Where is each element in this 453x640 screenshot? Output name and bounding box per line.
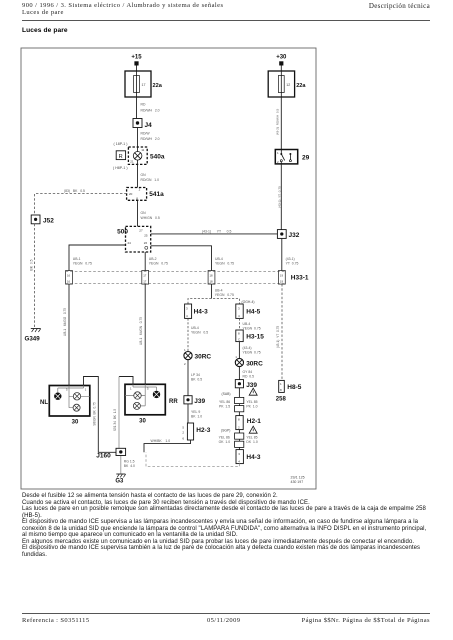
svg-text:YT 0.75: YT 0.75: [286, 262, 299, 266]
svg-text:YEGN 0.75: YEGN 0.75: [215, 293, 234, 297]
connector H4-3 lower: [236, 450, 243, 464]
H33-1 pin box 2: [142, 271, 149, 285]
svg-text:(43-1): (43-1): [286, 257, 295, 261]
connector H2-1: [236, 416, 243, 430]
warning triangle upper: [249, 388, 257, 395]
svg-text:3: 3: [238, 452, 240, 456]
svg-text:OK 1.0: OK 1.0: [219, 440, 231, 444]
connector J39 left: [184, 396, 192, 404]
svg-text:C: C: [238, 337, 241, 341]
svg-text:H4-5: H4-5: [246, 309, 260, 316]
svg-text:UB-1 64/GN 0.75: UB-1 64/GN 0.75: [139, 317, 143, 345]
svg-text:RR: RR: [169, 399, 178, 405]
svg-text:GY 84: GY 84: [243, 370, 253, 374]
inline connector pair lower: [235, 433, 244, 447]
inline connector pair upper: [235, 397, 244, 411]
footer rule: [22, 612, 430, 615]
connector H4-5: [236, 304, 243, 318]
svg-text:J160: J160: [96, 452, 111, 459]
connector H2-3: [182, 423, 193, 440]
svg-text:YEGN 0.75: YEGN 0.75: [243, 326, 261, 330]
header line 2: [22, 9, 64, 16]
ground drop wire through J160: [119, 377, 121, 474]
dashed trailer wire H4-3 to J160 node: [146, 452, 239, 466]
svg-text:2: 2: [182, 431, 184, 435]
svg-text:RD/W: RD/W: [141, 132, 151, 136]
svg-text:H4-3: H4-3: [194, 309, 208, 316]
svg-text:RD/WH 2.0: RD/WH 2.0: [141, 137, 160, 141]
svg-text:R: R: [119, 154, 123, 160]
500 pin 26 circle mark: [145, 246, 148, 249]
splice 30RC right: [235, 355, 243, 367]
svg-text:4: 4: [186, 314, 188, 318]
svg-text:4: 4: [238, 459, 240, 463]
wire J4 to 540a: [137, 128, 139, 148]
svg-text:( H8P-1 ): ( H8P-1 ): [113, 166, 128, 170]
svg-text:UB-4: UB-4: [215, 289, 223, 293]
svg-text:30: 30: [72, 420, 79, 426]
wire switch 29 to J32: [280, 164, 282, 230]
connector J4: [133, 119, 142, 128]
connector H3-15: [236, 330, 243, 342]
svg-text:2: 2: [238, 425, 240, 429]
svg-text:1: 1: [280, 382, 282, 386]
svg-text:RD/GN 1.0: RD/GN 1.0: [141, 178, 160, 182]
svg-text:UB-2: UB-2: [149, 257, 157, 261]
connector J160: [116, 448, 126, 455]
svg-text:8: 8: [238, 418, 240, 422]
H33-1 pin box 3: [208, 271, 215, 285]
wire +15 to fuse 17: [136, 66, 138, 72]
NL ground wire up over to J160: [84, 377, 116, 453]
wire 500 pin24 left to lamp NL feed: [69, 245, 126, 271]
connector J32: [277, 230, 286, 239]
svg-text:BK 1.0: BK 1.0: [191, 414, 202, 418]
svg-text:H8-5: H8-5: [287, 384, 301, 391]
svg-text:S8/GN BK 0.75: S8/GN BK 0.75: [93, 402, 97, 426]
svg-text:J4: J4: [145, 122, 153, 129]
svg-text:18: 18: [210, 280, 214, 284]
svg-text:19: 19: [280, 274, 284, 278]
svg-text:1: 1: [235, 355, 237, 359]
wire H4-5 to H3-15: [238, 318, 240, 330]
RR brake lamp filled: [153, 391, 160, 398]
page title: [22, 27, 68, 34]
svg-text:BK 0.5: BK 0.5: [29, 259, 33, 270]
svg-text:2: 2: [184, 362, 186, 366]
svg-text:30: 30: [139, 418, 146, 424]
svg-text:541a: 541a: [149, 191, 164, 198]
H33-1 pin box 1: [66, 271, 73, 285]
svg-text:(SAB): (SAB): [222, 392, 231, 396]
svg-text:21: 21: [130, 159, 134, 163]
svg-text:430 197: 430 197: [291, 480, 304, 484]
svg-text:5: 5: [182, 425, 184, 429]
wire to inline connector lower: [238, 430, 240, 433]
svg-text:RD: RD: [141, 103, 146, 107]
footer center: [207, 617, 240, 624]
svg-text:3: 3: [186, 306, 188, 310]
wire H33-1 to lamp RR: [144, 284, 146, 384]
H33-1 pin box 4: [279, 271, 286, 285]
diagram frame: [21, 48, 316, 489]
svg-text:NL: NL: [40, 400, 48, 406]
wire J39 to H2-3: [187, 404, 189, 423]
brake light switch 29: [275, 150, 297, 164]
svg-text:UB-1 64/GG 0.75: UB-1 64/GG 0.75: [63, 308, 67, 336]
svg-text:29: 29: [302, 154, 310, 161]
wire H4-3 to 30RC left: [187, 318, 189, 351]
svg-text:20: 20: [129, 192, 133, 196]
dashed wire J52 to G349: [34, 224, 36, 327]
svg-text:YEL 85: YEL 85: [246, 435, 257, 439]
svg-text:258: 258: [276, 396, 287, 402]
svg-text:DK 1.0: DK 1.0: [246, 440, 257, 444]
svg-text:G349: G349: [25, 336, 41, 343]
header right: [369, 2, 430, 10]
svg-text:30RC: 30RC: [195, 354, 212, 361]
svg-text:H33-1: H33-1: [291, 275, 309, 282]
svg-text:YEL 85: YEL 85: [246, 400, 257, 404]
svg-text:12: 12: [286, 83, 290, 87]
svg-text:YEL 86: YEL 86: [219, 400, 230, 404]
svg-text:RD/WH 2.0: RD/WH 2.0: [141, 109, 160, 113]
svg-text:GN: GN: [141, 173, 147, 177]
lamp unit NL box: [49, 386, 90, 417]
svg-text:S51 34 BK 1.5: S51 34 BK 1.5: [113, 409, 117, 432]
svg-text:( 18P-1 ): ( 18P-1 ): [114, 142, 128, 146]
wire J32 to bulkhead connector: [281, 238, 283, 271]
relay marker box R: [116, 151, 125, 160]
svg-text:WH/BK 1.0: WH/BK 1.0: [151, 439, 171, 443]
wire 541a to 500: [137, 200, 139, 226]
fuse 12 box 22a: [268, 71, 294, 97]
svg-text:8: 8: [238, 332, 240, 336]
svg-text:11: 11: [141, 148, 144, 152]
svg-text:(43-2) RD/WH 0.5: (43-2) RD/WH 0.5: [276, 108, 280, 135]
wire 500 right to high level stop lamp: [151, 246, 212, 271]
wire 30RC to J39 left: [187, 360, 189, 396]
svg-text:540a: 540a: [150, 153, 165, 160]
bulkhead connector H33-1 dashed band: [66, 271, 286, 283]
connector H4-3 upper: [185, 304, 192, 318]
svg-text:500: 500: [117, 229, 128, 236]
svg-text:RD 0.5: RD 0.5: [243, 375, 255, 379]
wire fuse 12 to switch 29: [280, 97, 282, 150]
svg-text:2: 2: [139, 188, 141, 192]
RR lamp crossed 1: [134, 392, 141, 399]
svg-text:J32: J32: [289, 232, 300, 239]
wire H33-1 to lamp NL: [68, 284, 70, 385]
footer right: [302, 617, 430, 624]
svg-text:LP 34: LP 34: [191, 373, 200, 377]
svg-text:G3: G3: [115, 479, 124, 485]
connector J39 right: [235, 380, 243, 388]
svg-text:8: 8: [280, 388, 282, 392]
svg-text:RG 1.5: RG 1.5: [124, 460, 135, 464]
connector H8-5 junction box 258: [279, 380, 285, 392]
node +15 terminal: [134, 61, 138, 65]
svg-text:YEL 86: YEL 86: [219, 435, 230, 439]
svg-text:27: 27: [139, 229, 143, 233]
wire 500 pin25 to J32: [151, 233, 278, 235]
header rule: [22, 20, 430, 21]
svg-text:2S/1 125: 2S/1 125: [291, 475, 305, 479]
wire to H2-1: [238, 412, 240, 416]
svg-text:GN: GN: [141, 211, 147, 215]
svg-text:(43-1) YT 0.75: (43-1) YT 0.75: [278, 186, 282, 208]
body text: [22, 493, 442, 558]
svg-text:(43-4): (43-4): [243, 346, 252, 350]
svg-text:1: 1: [184, 348, 186, 352]
control unit 500 dashed box: [126, 226, 151, 252]
control module 540a (ICE) dashed box with lamp: [128, 147, 147, 164]
svg-text:H2-3: H2-3: [196, 427, 210, 434]
svg-text:YEGN 0.75: YEGN 0.75: [73, 262, 92, 266]
svg-text:18: 18: [210, 274, 214, 278]
svg-text:6: 6: [182, 436, 184, 440]
NL brake lamp filled: [54, 393, 61, 400]
svg-text:YEGN 0.75: YEGN 0.75: [149, 262, 168, 266]
svg-text:1: 1: [277, 151, 279, 155]
footer left: [22, 617, 89, 624]
wire 540a to 541a: [137, 164, 139, 187]
svg-text:1: 1: [85, 388, 87, 392]
svg-text:1: 1: [130, 386, 132, 390]
svg-text:(83) BK 0.5: (83) BK 0.5: [64, 189, 85, 193]
ground G349: [31, 329, 41, 333]
ground G3: [116, 474, 125, 477]
svg-text:YEL 9: YEL 9: [191, 410, 200, 414]
node +30 terminal: [279, 61, 283, 65]
wire H2-3 down and left to J160: [144, 440, 191, 452]
svg-text:(43-1) YT 0.75: (43-1) YT 0.75: [276, 326, 280, 349]
svg-text:UB-4: UB-4: [191, 326, 199, 330]
lamp unit RR box: [125, 384, 165, 415]
svg-text:+30: +30: [276, 55, 287, 61]
svg-text:BK 0.5: BK 0.5: [191, 377, 202, 381]
svg-text:H3-15: H3-15: [246, 333, 264, 340]
wire fuse 17 to J4: [136, 97, 138, 119]
svg-text:UB-4: UB-4: [243, 322, 251, 326]
svg-text:WH/GN 0.5: WH/GN 0.5: [141, 216, 160, 220]
relay 541a dashed box: [127, 188, 147, 201]
svg-text:YEGN 0.75: YEGN 0.75: [215, 262, 234, 266]
svg-text:24: 24: [128, 241, 132, 245]
svg-text:25: 25: [144, 233, 148, 237]
RR ground wire over to G3 drop: [119, 377, 133, 385]
dashed trailer feed H33-1 to H8-5: [281, 284, 283, 380]
wire to H4-3 lower: [238, 447, 240, 449]
svg-text:4: 4: [238, 314, 240, 318]
svg-text:(SGP): (SGP): [221, 428, 230, 432]
RR interior wiring: [125, 384, 157, 406]
svg-text:30RC: 30RC: [246, 361, 263, 368]
connector J52: [31, 215, 40, 224]
svg-text:26: 26: [144, 241, 148, 245]
svg-text:3: 3: [238, 306, 240, 310]
header line 1: [22, 2, 223, 9]
dashed ground wire 541a to J52: [35, 194, 127, 215]
svg-text:UB-4: UB-4: [215, 257, 223, 261]
wire J39 to inline connector: [238, 388, 240, 398]
svg-text:J39: J39: [246, 382, 257, 389]
svg-text:(OGH-4): (OGH-4): [242, 300, 255, 304]
wire 500 pin26 down to lamp RR feed: [144, 252, 146, 271]
svg-text:H4-3: H4-3: [246, 454, 260, 461]
svg-text:J52: J52: [43, 218, 54, 225]
NL interior wiring: [58, 386, 90, 408]
svg-text:16: 16: [67, 274, 71, 278]
wire H33-1 down to split: [211, 284, 213, 298]
NL lamp crossed 2: [73, 404, 80, 411]
fuse 17 box 22a: [125, 71, 151, 97]
svg-text:H2-1: H2-1: [247, 418, 261, 425]
wire 30RC to J39 right: [238, 367, 240, 380]
splice 30RC left: [184, 348, 192, 366]
RR lamp crossed 2: [133, 402, 140, 409]
svg-text:(43-1) YT 0.5: (43-1) YT 0.5: [202, 230, 232, 234]
split wire to H4-3 and H4-5: [188, 299, 239, 304]
svg-text:YEGN 0.5: YEGN 0.5: [191, 330, 208, 334]
svg-text:YEGN 0.75: YEGN 0.75: [243, 350, 261, 354]
svg-text:17: 17: [142, 83, 146, 87]
svg-text:PK 1.5: PK 1.5: [219, 405, 230, 409]
svg-text:17: 17: [143, 274, 147, 278]
svg-text:+15: +15: [131, 55, 142, 61]
svg-text:PK 1.0: PK 1.0: [246, 405, 257, 409]
warning triangle lower: [249, 426, 257, 433]
svg-text:UB-1: UB-1: [73, 257, 81, 261]
wire +30 to fuse 12: [280, 66, 282, 72]
wire H3-15 to 30RC right: [238, 342, 240, 359]
svg-text:J39: J39: [194, 398, 205, 405]
svg-text:17: 17: [143, 280, 147, 284]
svg-text:16: 16: [67, 280, 71, 284]
NL lamp crossed 1: [73, 393, 80, 400]
svg-text:22a: 22a: [153, 83, 163, 89]
svg-text:BK 4.0: BK 4.0: [124, 464, 135, 468]
svg-text:22a: 22a: [296, 83, 306, 89]
svg-text:19: 19: [280, 280, 284, 284]
